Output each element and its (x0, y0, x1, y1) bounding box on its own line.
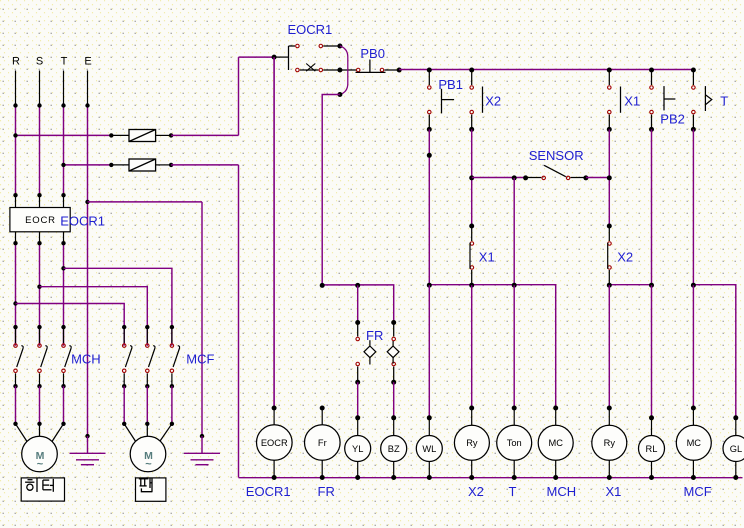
wire bottom rail (239, 477, 743, 479)
svg-text:GL: GL (730, 444, 742, 454)
wire bus4 (693, 285, 735, 418)
wire S rail top black (39, 71, 41, 106)
wire motor1 legs purple (16, 386, 64, 424)
junction E tap (85, 200, 89, 204)
wire Ry2 column (608, 285, 610, 408)
wire MC2 column (692, 285, 694, 408)
svg-text:PB0: PB0 (360, 46, 385, 61)
wire YL drop (357, 285, 359, 322)
contact FR YL branch (356, 323, 360, 383)
node BZ wire end (391, 320, 396, 325)
wire Ton column lower (513, 285, 515, 408)
junction rail T (691, 68, 696, 73)
junction dots on bottom rail (272, 475, 277, 480)
junction rail PB1 (427, 68, 432, 73)
node A junction (272, 55, 277, 60)
node fuse1 right terminal (169, 133, 173, 137)
junction R tap MCF (13, 301, 17, 305)
wire X2 drop to sensor tee (471, 129, 473, 226)
wire downcomer x238 to bottom rail (238, 165, 240, 478)
wire E rail top black (87, 71, 89, 106)
svg-text:EOCR1: EOCR1 (60, 214, 105, 229)
svg-text:X1: X1 (606, 484, 622, 499)
fuse F1 (129, 130, 156, 142)
wire fuse1 to riser purple (171, 134, 238, 136)
svg-text:EOCR: EOCR (261, 438, 288, 448)
junction PB1 bottom (427, 127, 432, 132)
wire T tap to MCF leg3 (64, 268, 172, 345)
wire fuse2 to downcomer purple (171, 164, 238, 166)
node YL lower end (355, 380, 360, 385)
junction dots motor2 legs (122, 422, 126, 426)
junction dots on rails at y=194.7 (13, 193, 17, 197)
svg-text:T: T (61, 56, 68, 68)
wire motor1 entry diagonals (16, 424, 64, 442)
contactor coil MC heater (553, 406, 558, 411)
junction T bottom (691, 127, 696, 132)
svg-text:X1: X1 (624, 93, 640, 108)
lamp WL (427, 415, 432, 420)
node fuse1 left terminal (109, 133, 113, 137)
relay EOCR1 contact block (274, 44, 356, 72)
junction bus2 PB1 (427, 283, 432, 288)
buzzer BZ (391, 415, 396, 420)
junction T fuse2 (61, 163, 65, 167)
contactor MCF pole 3 (170, 325, 180, 389)
wire PB2 down to bus3 (651, 129, 653, 285)
node sensor left endpoint (523, 175, 528, 180)
node BZ lower end (391, 380, 396, 385)
svg-text:BZ: BZ (388, 444, 400, 454)
junction rail X1 (607, 68, 612, 73)
wire riser top to node A (239, 56, 275, 58)
label box heater (21, 478, 64, 501)
junction bus4 (691, 283, 696, 288)
svg-text:E: E (84, 56, 91, 68)
svg-text:EOCR1: EOCR1 (288, 22, 333, 37)
node sensor right endpoint (583, 175, 588, 180)
motor M1 (22, 436, 58, 472)
label fan hangul (139, 478, 153, 492)
lamp YL (355, 415, 360, 420)
wire top rail (399, 69, 693, 71)
flasher symbol right (387, 341, 399, 364)
coil Ry (469, 406, 474, 411)
junction arc bottom (337, 92, 342, 97)
wire fuse2 left lead black (111, 164, 129, 166)
svg-text:R: R (12, 56, 20, 68)
junction T tap MCF (61, 266, 65, 270)
svg-text:~: ~ (145, 459, 152, 471)
label box fan (136, 478, 166, 501)
svg-text:EOCR1: EOCR1 (246, 484, 291, 499)
contact FR BZ branch (392, 323, 396, 383)
svg-text:EOCR: EOCR (25, 215, 56, 226)
wire PB1 down to bus (428, 129, 430, 285)
node fuse2 right terminal (169, 163, 173, 167)
wire fuse2 lead purple from T (64, 164, 112, 166)
junction R fuse1 (13, 133, 17, 137)
wire E tap vertical drop to ground 2 (201, 202, 203, 436)
svg-text:MCH: MCH (71, 352, 101, 367)
wire bus1 Fr to YL BZ (322, 285, 394, 323)
wire fuse1 right lead black (156, 134, 172, 136)
switch SENSOR (526, 165, 586, 179)
contactor MCF pole 2 (145, 325, 155, 389)
svg-text:X2: X2 (617, 250, 633, 265)
junction rail X2 (469, 68, 474, 73)
junction bus1 at YL (355, 283, 360, 288)
junction sensor tee X2 side (469, 175, 474, 180)
wire WL column (428, 285, 430, 418)
junction top contact out (337, 44, 342, 49)
ground 1 (70, 434, 106, 465)
junction X1 bottom (607, 127, 612, 132)
svg-text:FR: FR (318, 484, 335, 499)
svg-text:X2: X2 (468, 484, 484, 499)
wire sensor right purple (586, 177, 609, 179)
svg-text:RL: RL (646, 444, 658, 454)
junction bus2 Ton (512, 283, 517, 288)
flasher symbol left (364, 340, 376, 364)
wire arc bottom to Fr column (322, 95, 340, 286)
svg-text:T: T (720, 93, 728, 108)
node fuse2 left terminal (109, 163, 113, 167)
wire bus2 (429, 285, 555, 408)
contactor MCH pole 3 (61, 325, 71, 389)
wire S rail purple (39, 106, 41, 196)
junction rail at arc (337, 68, 342, 73)
junction PB2 bottom (649, 127, 654, 132)
wire RL column (651, 285, 653, 418)
svg-text:PB2: PB2 (660, 112, 685, 127)
lamp RL (649, 415, 654, 420)
junction Ton tap (512, 175, 517, 180)
svg-text:S: S (36, 56, 43, 68)
node dot on PB1 drop (427, 153, 432, 158)
svg-text:Fr: Fr (318, 438, 327, 448)
coil Ry2 (607, 406, 612, 411)
label heater hangul (25, 479, 53, 493)
wire fuse1 left lead black (111, 134, 129, 136)
junction bus2 X1mid (469, 283, 474, 288)
wire R tap to MCF leg1 (16, 304, 125, 346)
junction PB0 out (397, 68, 402, 73)
svg-text:X2: X2 (485, 93, 501, 108)
wire T rail top black (63, 71, 65, 106)
wire YL to lamp (357, 382, 359, 418)
svg-text:T: T (509, 484, 517, 499)
contactor coil MC fan (691, 406, 696, 411)
junction dots motor1 legs (13, 422, 17, 426)
wire E tap horizontal (88, 201, 203, 203)
junction S tap MCF (37, 285, 41, 289)
wire motor2 entry diagonals (124, 424, 172, 442)
timer Ton (512, 406, 517, 411)
svg-text:WL: WL (422, 444, 436, 454)
junction bus1 at Fr (320, 283, 325, 288)
wire T below box (63, 232, 65, 243)
svg-text:MCH: MCH (547, 484, 577, 499)
wire E rail purple full drop (87, 106, 89, 437)
junction X2 bottom (469, 127, 474, 132)
svg-text:YL: YL (352, 444, 363, 454)
junction rail PB2 (649, 68, 654, 73)
junction bus3 left (607, 283, 612, 288)
junction dots below box y=242.7 (13, 241, 17, 245)
svg-text:Ry: Ry (466, 438, 478, 448)
wire fuse1 lead purple from R (16, 134, 112, 136)
coil Fr (320, 406, 325, 411)
svg-text:Ton: Ton (507, 438, 522, 448)
svg-text:X1: X1 (479, 250, 495, 265)
wire bus3 (609, 284, 651, 286)
contactor MCH pole 1 (13, 325, 23, 389)
wire R below box (15, 232, 17, 243)
svg-text:FR: FR (366, 328, 383, 343)
svg-text:MC: MC (548, 438, 563, 448)
wire riser x238 up (238, 57, 240, 135)
wire X1 drop (608, 129, 610, 226)
contactor MCH pole 2 (37, 325, 47, 389)
coil EOCR (273, 57, 275, 408)
contactor MCF pole 1 (122, 325, 132, 389)
wire S tap to MCF leg2 (40, 287, 148, 346)
lamp GL (733, 415, 738, 420)
wire fuse2 right lead black (156, 164, 172, 166)
svg-text:MCF: MCF (684, 484, 712, 499)
svg-text:MC: MC (687, 438, 702, 448)
motor M2 (130, 436, 166, 472)
fuse F2 (129, 159, 156, 171)
wire sensor left purple (472, 177, 526, 179)
svg-text:MCF: MCF (186, 352, 214, 367)
wire R rail purple (15, 106, 17, 196)
junction bus3 right (649, 283, 654, 288)
ground 2 (184, 434, 220, 465)
wire Ry column (471, 285, 473, 408)
wire T drop to bus4 (692, 129, 694, 285)
wire S below box (39, 232, 41, 243)
relay box EOCR (10, 208, 70, 232)
wire T rail purple (63, 106, 65, 196)
node YL wire end (355, 320, 360, 325)
svg-text:Ry: Ry (604, 438, 616, 448)
junction sensor to X1 drop (607, 175, 612, 180)
junction dots on rails at y=105 (13, 103, 17, 107)
svg-text:SENSOR: SENSOR (529, 148, 584, 163)
wire R rail top black (15, 71, 17, 106)
wire motor2 legs purple (124, 386, 172, 424)
wire Ton column upper (513, 178, 515, 285)
svg-text:~: ~ (37, 459, 44, 471)
wire BZ to buzzer (393, 382, 395, 418)
arc EOCR1 (340, 46, 348, 95)
